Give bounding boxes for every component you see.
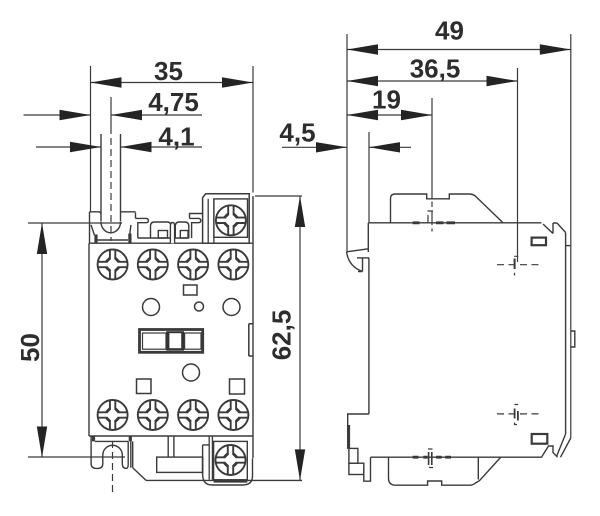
svg-text:35: 35: [154, 56, 183, 86]
svg-text:4,5: 4,5: [279, 118, 315, 148]
svg-text:36,5: 36,5: [410, 54, 461, 84]
svg-text:50: 50: [15, 333, 45, 362]
svg-text:62,5: 62,5: [267, 310, 297, 361]
svg-text:4,75: 4,75: [148, 87, 199, 117]
svg-text:49: 49: [435, 16, 464, 46]
svg-text:4,1: 4,1: [158, 122, 194, 152]
svg-text:19: 19: [372, 85, 401, 115]
